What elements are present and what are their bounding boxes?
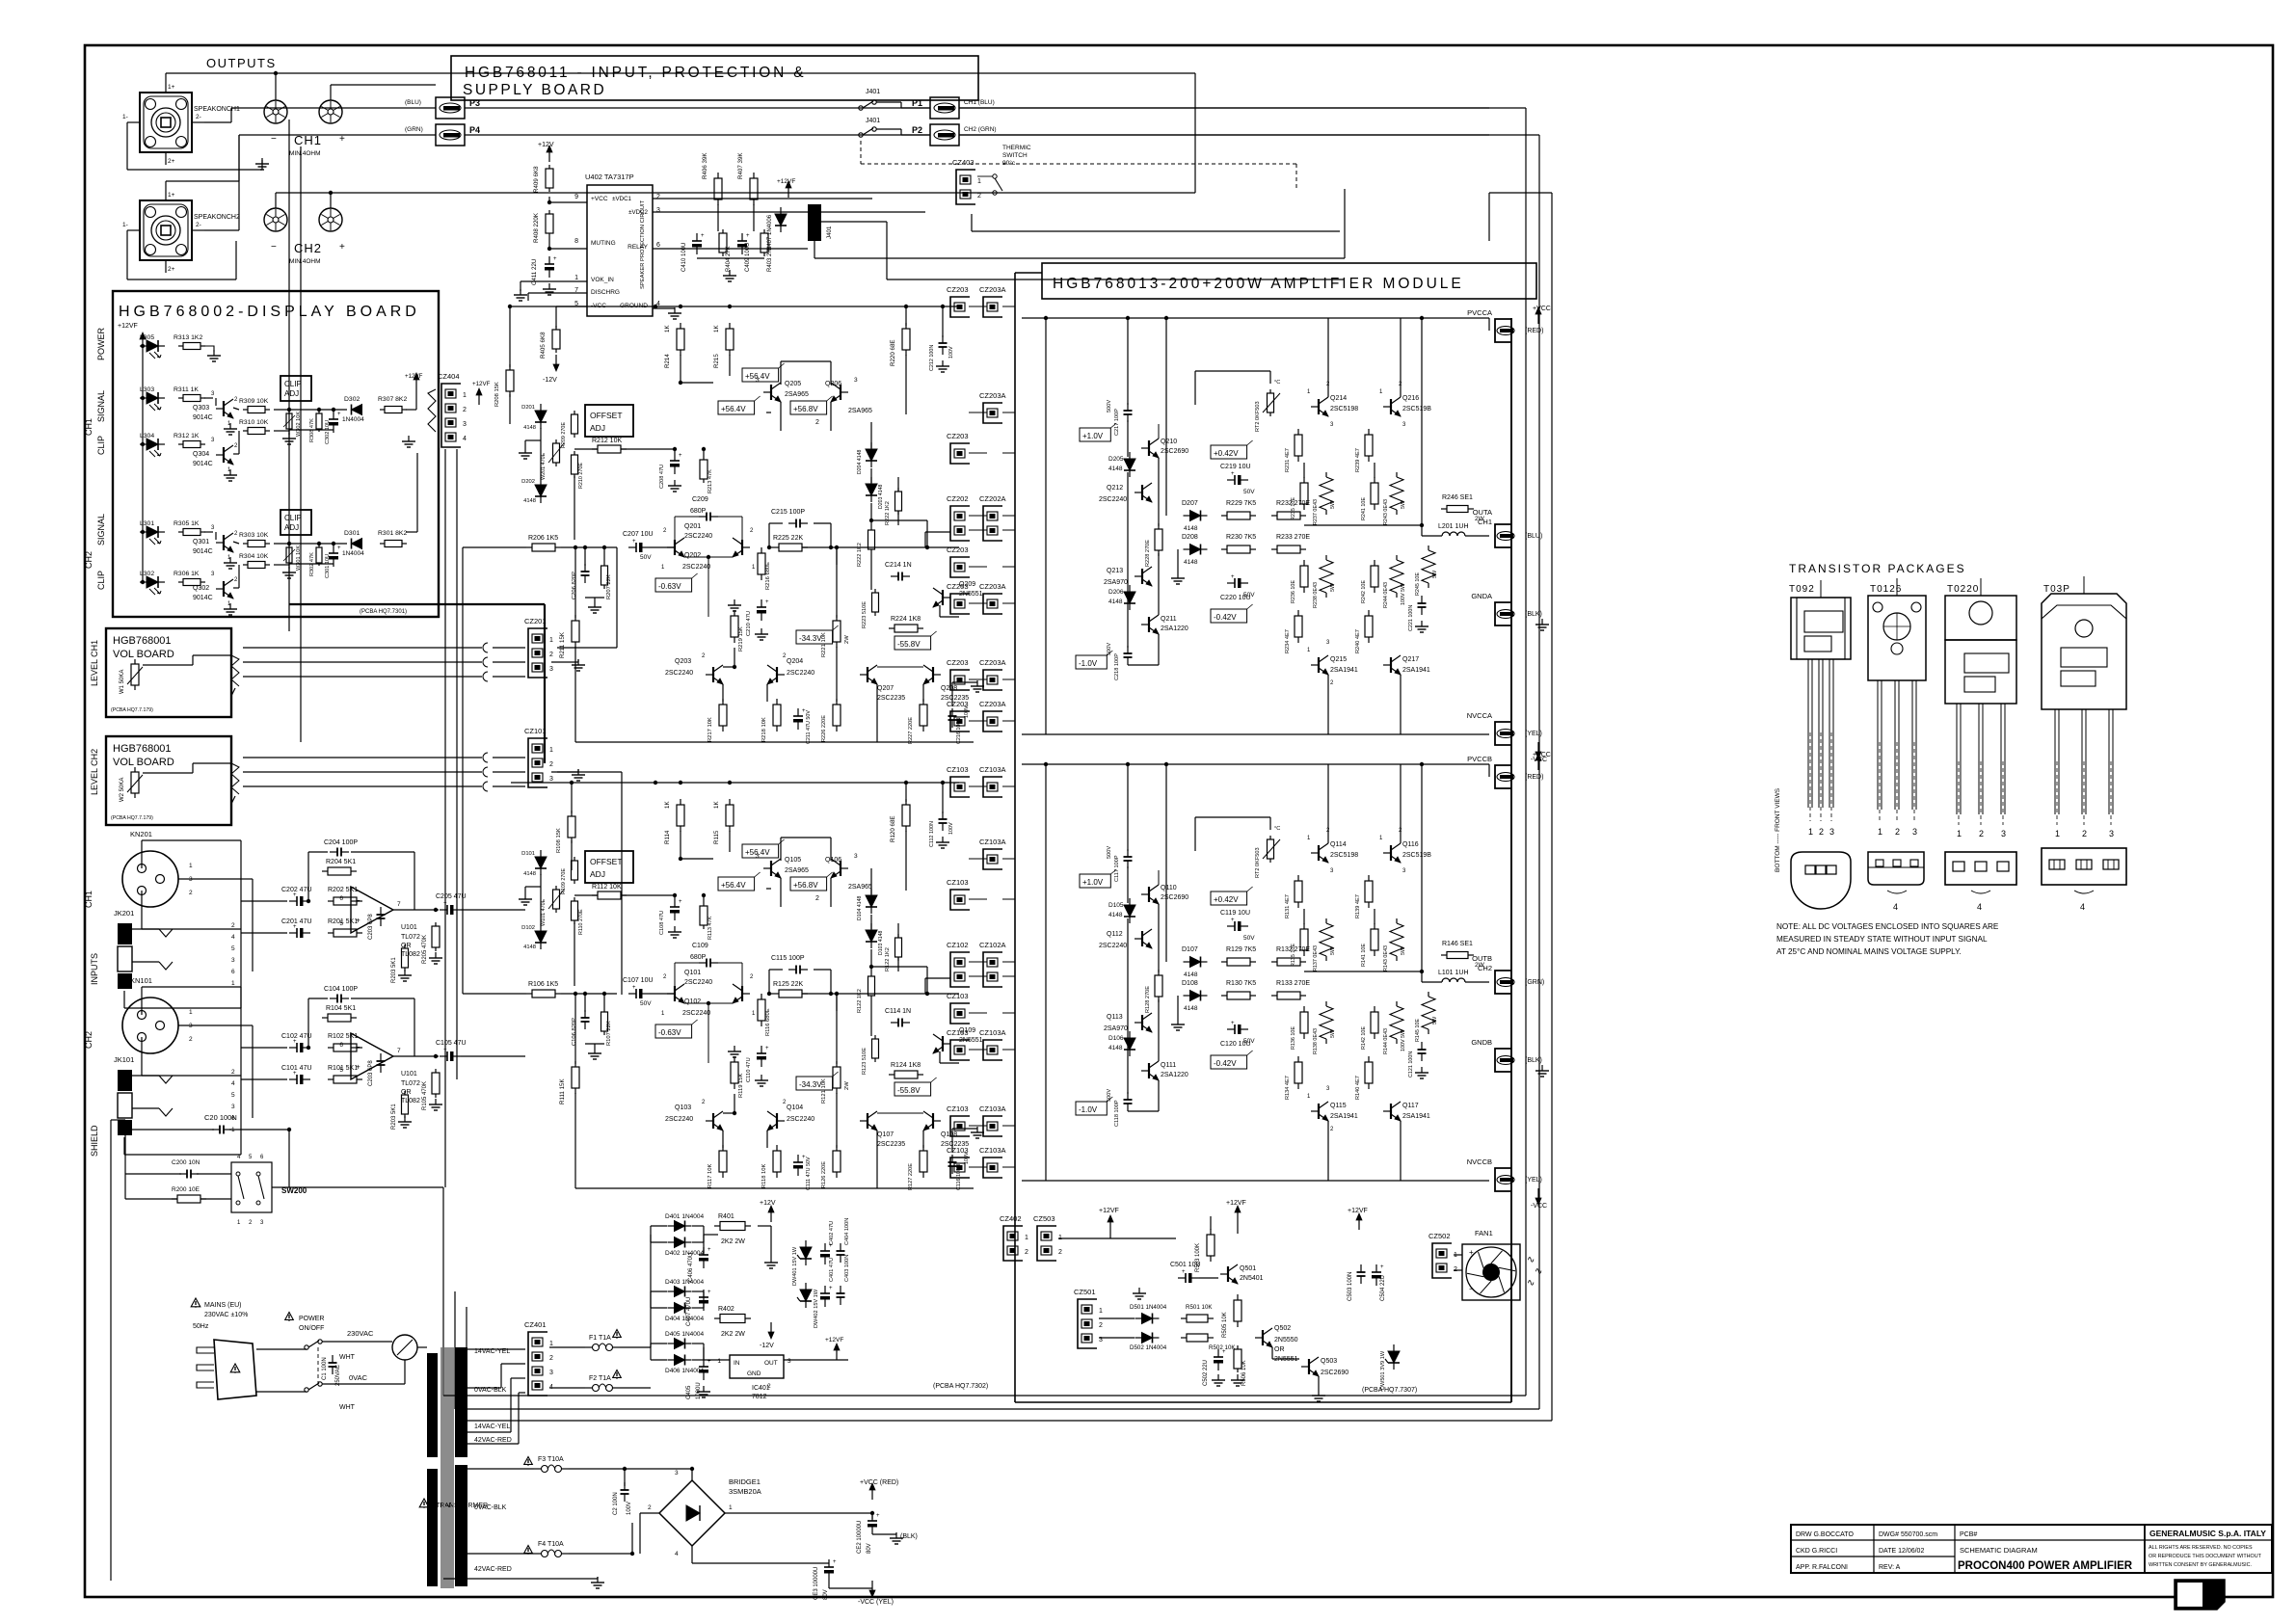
svg-text:Q217: Q217 (1402, 656, 1419, 663)
svg-text:2: 2 (189, 890, 193, 896)
svg-text:D108: D108 (1182, 980, 1198, 987)
svg-text:R312 1K: R312 1K (174, 433, 200, 439)
svg-text:R214: R214 (664, 354, 671, 368)
svg-text:P2: P2 (912, 125, 922, 135)
svg-text:3SMB20A: 3SMB20A (729, 1487, 761, 1496)
svg-text:RT2 0KF503: RT2 0KF503 (1255, 847, 1261, 878)
svg-text:R218 10K: R218 10K (761, 717, 767, 742)
svg-text:CZ202A: CZ202A (979, 494, 1006, 503)
svg-text:DISCHRG: DISCHRG (591, 289, 620, 296)
svg-text:Q103: Q103 (675, 1104, 691, 1111)
svg-text:100V: 100V (627, 1502, 632, 1515)
svg-text:R125 22K: R125 22K (773, 981, 803, 988)
svg-text:C205 47U: C205 47U (436, 893, 467, 900)
svg-text:(PCBA HQ7.7.179): (PCBA HQ7.7.179) (111, 815, 153, 821)
svg-text:CZ404: CZ404 (438, 372, 460, 381)
svg-text:CZ203: CZ203 (947, 700, 969, 708)
svg-text:+: + (1469, 1248, 1474, 1257)
svg-text:R216 680E: R216 680E (765, 562, 771, 590)
svg-text:R409 6K8: R409 6K8 (533, 166, 540, 193)
svg-text:R122 1K2: R122 1K2 (885, 947, 891, 971)
svg-text:230VAC ±10%: 230VAC ±10% (204, 1312, 248, 1318)
svg-text:OR: OR (1274, 1346, 1285, 1353)
svg-text:3: 3 (656, 207, 660, 214)
svg-text:SPEAKER PROTECTION CIRCUIT: SPEAKER PROTECTION CIRCUIT (640, 200, 646, 289)
svg-text:4148: 4148 (1184, 525, 1198, 532)
svg-text:4148: 4148 (523, 871, 536, 877)
svg-text:+12VF: +12VF (777, 178, 795, 185)
svg-text:1-: 1- (122, 114, 128, 120)
svg-text:Q116: Q116 (1402, 841, 1419, 848)
svg-text:(PCBA HQ7.7301): (PCBA HQ7.7301) (360, 609, 407, 615)
svg-text:R233 270E: R233 270E (1276, 534, 1310, 541)
svg-text:R206 1K5: R206 1K5 (528, 535, 558, 542)
svg-text:3: 3 (854, 377, 858, 384)
svg-text:3: 3 (231, 1104, 235, 1110)
svg-text:R134 4E7: R134 4E7 (1285, 1076, 1291, 1100)
svg-text:R402: R402 (718, 1306, 734, 1313)
svg-text:2SC5198: 2SC5198 (1330, 406, 1358, 412)
svg-text:+12VF: +12VF (405, 373, 423, 380)
svg-text:FAN1: FAN1 (1475, 1229, 1493, 1237)
svg-text:1: 1 (1957, 829, 1962, 838)
svg-text:R406 39K: R406 39K (702, 152, 708, 179)
svg-text:R506 10K: R506 10K (1241, 1360, 1247, 1386)
svg-text:CE2 10000U: CE2 10000U (857, 1521, 863, 1554)
svg-text:MAINS (EU): MAINS (EU) (204, 1302, 242, 1309)
svg-text:R104 5K1: R104 5K1 (326, 1005, 356, 1012)
svg-text:CZ203: CZ203 (947, 545, 969, 554)
svg-text:1K: 1K (713, 801, 720, 809)
svg-text:R505 10K: R505 10K (1222, 1312, 1228, 1338)
svg-text:3: 3 (2001, 829, 2006, 838)
svg-text:2: 2 (1895, 827, 1900, 837)
svg-text:ADJ: ADJ (284, 523, 299, 532)
svg-text:R110 270E: R110 270E (578, 909, 584, 935)
svg-text:+VCC: +VCC (1533, 752, 1551, 758)
svg-text:+56.8V: +56.8V (793, 405, 818, 413)
svg-text:CZ103: CZ103 (947, 992, 969, 1000)
svg-text:MEASURED IN STEADY STATE W: MEASURED IN STEADY STATE WITHOUT INPUT S… (1776, 935, 1988, 944)
svg-text:R241 10E: R241 10E (1361, 497, 1367, 520)
svg-text:R123 510E: R123 510E (862, 1048, 868, 1075)
svg-text:OUT: OUT (764, 1360, 778, 1367)
svg-text:2SC2690: 2SC2690 (1161, 448, 1188, 455)
svg-text:4: 4 (2080, 902, 2085, 912)
svg-text:C117 100P: C117 100P (1114, 855, 1120, 882)
svg-text:1: 1 (977, 178, 981, 185)
svg-text:R204 5K1: R204 5K1 (326, 859, 356, 865)
svg-text:+12V: +12V (538, 142, 554, 148)
svg-text:5W: 5W (1330, 946, 1336, 955)
svg-text:CH2: CH2 (294, 241, 322, 255)
svg-text:C219 10U: C219 10U (1220, 464, 1251, 470)
svg-text:L303: L303 (140, 386, 154, 393)
svg-text:CLIP: CLIP (96, 436, 106, 455)
svg-text:2: 2 (549, 761, 553, 768)
svg-text:2SA965: 2SA965 (848, 408, 872, 414)
svg-text:J401: J401 (866, 118, 880, 124)
svg-text:+: + (765, 599, 769, 605)
svg-text:7: 7 (397, 901, 401, 908)
svg-text:R209 270E: R209 270E (561, 422, 567, 448)
svg-text:2: 2 (1058, 1249, 1062, 1256)
svg-text:680P: 680P (690, 508, 707, 515)
svg-text:5W: 5W (1330, 583, 1336, 592)
svg-text:SCHEMATIC DIAGRAM: SCHEMATIC DIAGRAM (1960, 1546, 2038, 1555)
svg-text:R215: R215 (713, 354, 720, 368)
svg-text:R237 0E43: R237 0E43 (1313, 499, 1319, 525)
svg-text:CZ203: CZ203 (947, 432, 969, 440)
svg-text:2SA965: 2SA965 (785, 867, 809, 874)
svg-text:C206 820P: C206 820P (572, 572, 577, 599)
svg-text:CH1 (BLU): CH1 (BLU) (964, 99, 995, 106)
svg-text:W302 10K: W302 10K (296, 412, 302, 437)
svg-text:R246 SE1: R246 SE1 (1442, 494, 1473, 501)
svg-text:CE3 10000U: CE3 10000U (814, 1567, 819, 1600)
svg-text:2SA965: 2SA965 (785, 391, 809, 398)
svg-text:(GRN): (GRN) (405, 126, 423, 133)
svg-text:+12V: +12V (760, 1200, 776, 1207)
svg-text:14VAC-YEL: 14VAC-YEL (474, 1423, 510, 1430)
svg-text:C1 100N: C1 100N (322, 1357, 328, 1380)
svg-text:MIN.4OHM: MIN.4OHM (289, 258, 321, 265)
svg-text:R136 10E: R136 10E (1291, 1026, 1296, 1050)
svg-text:R304 10K: R304 10K (239, 553, 269, 560)
svg-text:R219 15K: R219 15K (738, 626, 744, 652)
svg-text:CZ103: CZ103 (947, 1028, 969, 1037)
svg-text:1: 1 (2055, 829, 2060, 838)
svg-text:R225 22K: R225 22K (773, 535, 803, 542)
svg-text:1: 1 (1808, 827, 1813, 837)
svg-text:+: + (707, 1247, 711, 1253)
svg-text:CZ203A: CZ203A (979, 658, 1006, 667)
svg-text:+: + (746, 233, 750, 239)
svg-text:CZ102A: CZ102A (979, 941, 1006, 949)
svg-text:R232 270E: R232 270E (1276, 500, 1310, 507)
svg-text:R126 220E: R126 220E (821, 1161, 827, 1188)
svg-text:1: 1 (729, 1504, 733, 1511)
svg-text:C200 10N: C200 10N (172, 1159, 200, 1166)
svg-text:+: + (1231, 918, 1235, 923)
svg-text:CH2: CH2 (84, 1031, 93, 1049)
svg-text:BOTTOM ----- FRONT VIEWS: BOTTOM ----- FRONT VIEWS (1775, 787, 1781, 872)
svg-text:3: 3 (854, 853, 858, 860)
svg-text:+1.0V: +1.0V (1082, 878, 1104, 887)
svg-text:RT2 0KF503: RT2 0KF503 (1255, 401, 1261, 432)
svg-text:R208 15K: R208 15K (494, 382, 500, 407)
svg-text:AT 25°C AND NOMINAL MAINS: AT 25°C AND NOMINAL MAINS VOLTAGE SUPPLY… (1776, 947, 1962, 956)
svg-text:C218 100P: C218 100P (1114, 653, 1120, 680)
svg-text:1: 1 (189, 1009, 193, 1016)
svg-text:2: 2 (231, 1069, 235, 1076)
svg-text:DRW G.BOCCATO: DRW G.BOCCATO (1796, 1531, 1854, 1538)
svg-text:C20 100N: C20 100N (204, 1113, 237, 1122)
svg-text:R146 SE1: R146 SE1 (1442, 941, 1473, 947)
svg-text:C302 10U: C302 10U (325, 420, 331, 444)
svg-text:1N4004: 1N4004 (342, 550, 364, 557)
svg-text:2SC519B: 2SC519B (1402, 406, 1431, 412)
svg-text:6: 6 (339, 1042, 343, 1049)
svg-text:1: 1 (549, 1341, 553, 1347)
svg-text:+: + (1231, 1021, 1235, 1026)
svg-text:±VDC1: ±VDC1 (612, 196, 631, 202)
svg-text:Q205: Q205 (785, 381, 801, 387)
svg-text:1: 1 (1878, 827, 1882, 837)
svg-text:C215 100P: C215 100P (771, 509, 805, 516)
svg-text:-0.63V: -0.63V (658, 582, 681, 591)
svg-text:CZ203A: CZ203A (979, 700, 1006, 708)
svg-text:R244 0E43: R244 0E43 (1383, 582, 1389, 608)
svg-text:OUTB: OUTB (1472, 954, 1492, 963)
svg-text:C502 22U: C502 22U (1203, 1360, 1209, 1386)
svg-text:C108 47U: C108 47U (659, 911, 665, 935)
svg-text:C410 100U: C410 100U (681, 243, 687, 272)
svg-text:Q104: Q104 (787, 1104, 803, 1111)
svg-text:+: + (829, 1286, 833, 1291)
svg-text:2: 2 (1099, 1322, 1103, 1329)
svg-text:D406 1N4004: D406 1N4004 (665, 1368, 704, 1374)
svg-text:(RED): (RED) (1525, 774, 1543, 781)
svg-text:80V: 80V (823, 1589, 829, 1600)
svg-text:HGB768002-DISPLAY BOARD: HGB768002-DISPLAY BOARD (119, 304, 420, 320)
svg-text:4148: 4148 (523, 945, 536, 950)
svg-text:4: 4 (675, 1551, 679, 1557)
svg-text:CZ203A: CZ203A (979, 285, 1006, 294)
svg-text:NOTE: ALL DC VOLTAGES ENCL: NOTE: ALL DC VOLTAGES ENCLOSED INTO SQUA… (1776, 922, 1999, 931)
svg-text:CZ103: CZ103 (947, 1104, 969, 1113)
svg-text:TL072: TL072 (401, 934, 420, 941)
svg-text:+1.0V: +1.0V (1082, 432, 1104, 440)
svg-text:HGB768001: HGB768001 (113, 635, 172, 647)
svg-text:R116 680E: R116 680E (765, 1008, 771, 1036)
svg-text:Q111: Q111 (1161, 1062, 1176, 1069)
svg-text:D105: D105 (1108, 902, 1124, 909)
svg-text:1: 1 (231, 980, 235, 987)
svg-text:ADJ: ADJ (590, 869, 605, 879)
svg-text:+: + (701, 233, 705, 239)
svg-text:2SA1941: 2SA1941 (1402, 667, 1430, 674)
svg-text:R203 5K1: R203 5K1 (391, 957, 397, 983)
svg-text:3: 3 (675, 1470, 679, 1477)
svg-text:R144 0E43: R144 0E43 (1383, 1028, 1389, 1054)
svg-text:9014C: 9014C (193, 414, 213, 421)
svg-text:−: − (356, 1043, 360, 1051)
svg-text:+: + (876, 1513, 880, 1519)
svg-text:ALL RIGHTS ARE RESERVED. NO: ALL RIGHTS ARE RESERVED. NO COPIES (2149, 1545, 2253, 1551)
svg-text:4: 4 (1893, 902, 1898, 912)
svg-text:+VCC: +VCC (591, 196, 608, 202)
svg-text:+: + (356, 1062, 360, 1071)
svg-text:R307 8K2: R307 8K2 (378, 396, 407, 403)
svg-text:R114: R114 (664, 830, 671, 844)
svg-text:1: 1 (463, 392, 467, 399)
svg-text:R221 10K: R221 10K (821, 632, 827, 657)
svg-text:C403 100N: C403 100N (844, 1255, 850, 1282)
svg-text:C101 47U: C101 47U (281, 1065, 312, 1072)
svg-text:5W: 5W (1401, 1029, 1406, 1038)
svg-text:+12VF: +12VF (472, 381, 491, 387)
svg-text:THERMIC: THERMIC (1002, 145, 1031, 151)
svg-text:2SA1941: 2SA1941 (1402, 1113, 1430, 1120)
svg-text:D204 4148: D204 4148 (857, 450, 863, 474)
svg-text:CH1: CH1 (84, 418, 93, 436)
svg-text:NVCCB: NVCCB (1467, 1157, 1492, 1166)
svg-text:∿: ∿ (1527, 1255, 1535, 1265)
svg-text:F3 T10A: F3 T10A (538, 1456, 564, 1463)
svg-text:C214 1N: C214 1N (885, 562, 912, 569)
svg-text:Q210: Q210 (1161, 439, 1177, 445)
svg-text:Q107: Q107 (877, 1131, 894, 1138)
svg-text:5: 5 (231, 1092, 235, 1099)
svg-text:5: 5 (339, 920, 343, 927)
svg-text:3: 3 (549, 776, 553, 783)
svg-text:2SC2690: 2SC2690 (1321, 1370, 1348, 1376)
svg-text:F1 T1A: F1 T1A (589, 1335, 611, 1342)
svg-text:R501 10K: R501 10K (1186, 1304, 1213, 1311)
svg-text:C207 10U: C207 10U (623, 531, 654, 538)
svg-text:Q216: Q216 (1402, 395, 1419, 402)
svg-text:R223 510E: R223 510E (862, 601, 868, 628)
svg-text:R122 1K2: R122 1K2 (857, 989, 863, 1013)
svg-text:CZ103A: CZ103A (979, 765, 1006, 774)
svg-text:2SC2240: 2SC2240 (684, 533, 712, 540)
svg-text:CZ101: CZ101 (524, 727, 547, 735)
svg-text:PVCCB: PVCCB (1467, 755, 1492, 763)
svg-text:6: 6 (656, 242, 660, 249)
svg-text:R310 10K: R310 10K (239, 419, 269, 426)
svg-text:C221 100N: C221 100N (1408, 605, 1414, 631)
svg-text:+: + (443, 1048, 447, 1053)
svg-text:C405: C405 (686, 1385, 692, 1399)
svg-text:4148: 4148 (1108, 466, 1123, 472)
svg-text:R313 1K2: R313 1K2 (174, 334, 202, 341)
svg-text:+: + (1231, 471, 1235, 477)
svg-text:+56.4V: +56.4V (721, 881, 746, 890)
svg-text:WHT: WHT (339, 1404, 356, 1411)
svg-text:GENERALMUSIC S.p.A. ITALY: GENERALMUSIC S.p.A. ITALY (2149, 1529, 2266, 1538)
svg-text:C121 100N: C121 100N (1408, 1051, 1414, 1078)
svg-text:D203 4148: D203 4148 (878, 485, 884, 509)
svg-text:CZ203: CZ203 (947, 582, 969, 591)
svg-text:1K: 1K (713, 325, 720, 333)
svg-text:SIGNAL: SIGNAL (96, 514, 106, 545)
svg-text:°C: °C (1274, 826, 1280, 832)
svg-text:2+: 2+ (168, 266, 175, 273)
svg-text:Q206: Q206 (825, 381, 841, 387)
svg-text:+12VF: +12VF (1099, 1208, 1119, 1214)
svg-text:D301: D301 (344, 530, 360, 537)
svg-text:R117 10K: R117 10K (707, 1164, 713, 1188)
svg-text:50V: 50V (1243, 935, 1255, 942)
svg-text:C111 47U 50V: C111 47U 50V (806, 1157, 812, 1190)
svg-text:CZ102: CZ102 (947, 941, 969, 949)
svg-text:4: 4 (463, 436, 467, 442)
svg-text:R311 1K: R311 1K (174, 386, 199, 393)
svg-text:-VCC (YEL): -VCC (YEL) (858, 1599, 894, 1606)
svg-text:CZ103A: CZ103A (979, 838, 1006, 846)
svg-text:Q102: Q102 (684, 998, 701, 1005)
svg-text:JK201: JK201 (114, 909, 134, 918)
svg-text:D106: D106 (1108, 1035, 1124, 1042)
svg-text:∿: ∿ (1535, 1266, 1542, 1277)
svg-text:50V: 50V (640, 554, 652, 561)
svg-text:+: + (443, 901, 447, 907)
svg-text:1+: 1+ (168, 84, 175, 91)
svg-text:ON/OFF: ON/OFF (299, 1325, 324, 1332)
svg-text:7812: 7812 (752, 1394, 767, 1400)
svg-text:Q215: Q215 (1330, 656, 1347, 663)
svg-text:KN101: KN101 (130, 976, 152, 985)
svg-text:D404 1N4004: D404 1N4004 (665, 1316, 704, 1322)
svg-text:2N5401: 2N5401 (1240, 1275, 1264, 1282)
svg-text:JK101: JK101 (114, 1055, 134, 1064)
svg-text:TL072: TL072 (401, 1080, 420, 1087)
svg-text:+56.4V: +56.4V (721, 405, 746, 413)
svg-text:L305: L305 (140, 334, 154, 341)
svg-text:C112 100N: C112 100N (929, 821, 935, 847)
svg-text:R404 27K: R404 27K (726, 246, 732, 272)
svg-text:R213 47K: R213 47K (707, 469, 713, 493)
svg-text:5: 5 (339, 1067, 343, 1074)
svg-text:4148: 4148 (1108, 1045, 1123, 1051)
svg-text:HGB768011 - INPUT, PROTECTI: HGB768011 - INPUT, PROTECTION & (465, 65, 806, 81)
svg-text:CZ103: CZ103 (947, 1146, 969, 1155)
svg-text:3: 3 (756, 853, 760, 860)
svg-text:2SC2240: 2SC2240 (787, 670, 814, 677)
svg-text:D403 1N4004: D403 1N4004 (665, 1279, 704, 1286)
svg-text:W1 50KA: W1 50KA (120, 670, 125, 694)
svg-text:R401: R401 (718, 1213, 734, 1220)
svg-text:CH1: CH1 (1478, 518, 1492, 526)
svg-text:+: + (765, 1046, 769, 1051)
svg-text:5W: 5W (1401, 946, 1406, 955)
svg-text:-1.0V: -1.0V (1079, 1105, 1098, 1114)
svg-text:R408 220K: R408 220K (533, 212, 540, 243)
svg-text:2SC2240: 2SC2240 (665, 1116, 693, 1123)
svg-text:R145 10E: R145 10E (1415, 1019, 1421, 1042)
svg-text:R243 0E43: R243 0E43 (1383, 499, 1389, 525)
svg-text:R106 1K5: R106 1K5 (528, 981, 558, 988)
svg-text:CZ203A: CZ203A (979, 582, 1006, 591)
svg-text:2: 2 (549, 652, 553, 658)
svg-text:T092: T092 (1789, 584, 1815, 595)
svg-text:9014C: 9014C (193, 548, 213, 555)
svg-text:C209: C209 (692, 496, 708, 503)
svg-text:(PCBA HQ7.7307): (PCBA HQ7.7307) (1362, 1387, 1417, 1394)
svg-text:VOL BOARD: VOL BOARD (113, 757, 174, 768)
svg-text:C107 10U: C107 10U (623, 977, 654, 984)
svg-text:C503 100N: C503 100N (1348, 1272, 1353, 1301)
svg-text:D107: D107 (1182, 946, 1198, 953)
svg-text:R137 0E43: R137 0E43 (1313, 945, 1319, 971)
svg-text:2W: 2W (844, 635, 850, 644)
svg-text:Q502: Q502 (1274, 1325, 1291, 1332)
svg-text:VOL BOARD: VOL BOARD (113, 649, 174, 660)
svg-text:R120 68E: R120 68E (890, 815, 896, 842)
svg-text:CZ402: CZ402 (1000, 1214, 1022, 1223)
svg-text:50V: 50V (640, 1000, 652, 1007)
svg-text:R227 220E: R227 220E (908, 717, 914, 744)
svg-text:3: 3 (549, 666, 553, 673)
svg-text:PCB#: PCB# (1960, 1531, 1977, 1538)
svg-text:R239 4E7: R239 4E7 (1355, 448, 1361, 472)
svg-text:DW501 3V9 1W: DW501 3V9 1W (1380, 1350, 1386, 1390)
svg-text:P4: P4 (469, 125, 480, 135)
svg-text:4148: 4148 (1184, 559, 1198, 566)
svg-text:7: 7 (397, 1048, 401, 1054)
svg-text:CZ202: CZ202 (947, 494, 969, 503)
